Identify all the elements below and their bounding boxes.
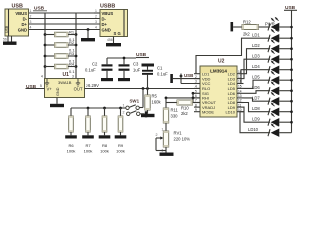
ground bar U1 [50, 104, 64, 107]
svg-text:5: 5 [195, 90, 197, 94]
svg-text:2: 2 [30, 15, 32, 19]
resistor R10 [166, 100, 200, 116]
svg-text:RV1: RV1 [174, 131, 183, 136]
wire SW1 right drop [140, 89, 144, 108]
junction RHI REFOUT tie [192, 97, 195, 103]
junction rail PWR [290, 26, 293, 29]
label LD2 [252, 43, 260, 48]
wire GND row4 [29, 29, 101, 31]
svg-text:USB: USB [184, 73, 193, 78]
svg-text:USB: USB [5, 25, 9, 33]
label LD6 [252, 85, 260, 90]
ground bar J1 shield [3, 42, 17, 45]
label LD10 [248, 127, 259, 132]
label LD5 [252, 75, 260, 80]
svg-text:11: 11 [238, 103, 242, 107]
label LD8 [252, 106, 260, 111]
junction rail LD2 [290, 47, 293, 50]
svg-text:2: 2 [156, 133, 158, 137]
IC U2 left pin names [202, 71, 217, 114]
IC U2 body [200, 66, 237, 117]
resistor R6 [67, 108, 76, 154]
connector J2 USBB label [100, 3, 115, 9]
svg-text:R1: R1 [69, 30, 75, 35]
junction U2 pin3 branch [180, 75, 183, 78]
resistor R4 [45, 62, 76, 74]
resistor R3 [45, 51, 76, 63]
svg-text:R2: R2 [69, 40, 75, 45]
svg-text:13: 13 [238, 94, 242, 98]
svg-text:U2: U2 [218, 58, 225, 64]
wire pin15 to LD5 [244, 80, 271, 88]
ground bar R9 [115, 135, 127, 138]
connector J1 pin VBUS [15, 11, 27, 16]
resistor R5 [145, 89, 162, 114]
connector J1 USB label [12, 3, 23, 9]
IC U1 name [58, 80, 72, 85]
svg-text:456: 456 [107, 38, 113, 42]
LED LD10 [268, 123, 292, 136]
junction rail LD3 [290, 58, 293, 61]
net flag USB at U2 [184, 73, 193, 78]
svg-text:9: 9 [195, 108, 197, 112]
junctions shunt right column [75, 33, 78, 68]
connector J2 pin numbers [95, 9, 97, 30]
connector J2 pin D- [102, 16, 107, 21]
svg-text:100k: 100k [67, 149, 76, 154]
wire pin10 to LD10 [240, 112, 270, 133]
LED LD9 [268, 113, 292, 127]
wire shunt left column [44, 13, 46, 79]
IC U1 pin OUT [74, 87, 83, 92]
LED LD2 [268, 39, 292, 53]
IC U1 body [45, 79, 85, 98]
svg-text:3: 3 [195, 80, 197, 84]
wire pin17 to LD3 [244, 59, 271, 78]
wire pin14 to LD6 [244, 91, 271, 94]
svg-text:1: 1 [95, 9, 97, 13]
resistor R9 [116, 108, 125, 154]
svg-text:V+: V+ [47, 87, 53, 92]
svg-text:56: 56 [3, 38, 7, 42]
label LD3 [252, 54, 260, 59]
svg-text:4: 4 [95, 26, 97, 30]
svg-text:LM3914: LM3914 [210, 69, 227, 74]
net flag USB row1 [33, 6, 47, 12]
svg-text:4: 4 [41, 75, 43, 79]
switch SW1 label [130, 99, 140, 104]
svg-text:2: 2 [95, 15, 97, 19]
IC U2 left pin numbers [195, 70, 197, 112]
wire node A vertical [165, 98, 167, 108]
label PWR [265, 22, 275, 27]
svg-text:1uF: 1uF [133, 68, 141, 73]
wire pin18 to LD2 [244, 49, 271, 74]
connector J1 pin D- [23, 16, 28, 21]
junction rail LD8 [290, 110, 293, 113]
connector J2 pin GND and shield [102, 27, 121, 36]
IC U2 right pin numbers [238, 70, 242, 112]
svg-text:2: 2 [195, 75, 197, 79]
svg-text:1: 1 [162, 128, 164, 132]
LED LD7 [268, 92, 292, 106]
wire U2 pin2 [173, 78, 200, 80]
junctions shunt left column [44, 33, 47, 68]
IC U1 rotated GND [56, 87, 60, 96]
resistor R2 [45, 40, 76, 52]
svg-text:GND: GND [56, 87, 60, 96]
wire pin1 over top [196, 38, 270, 73]
svg-text:LD9: LD9 [252, 117, 260, 122]
svg-text:160k: 160k [152, 100, 162, 105]
wire U1 ground pin [56, 98, 58, 104]
connector J2 shield pin numbers [107, 38, 113, 42]
svg-text:D-: D- [102, 16, 107, 21]
IC U2 header band [201, 67, 237, 74]
capacitor C1 [142, 64, 169, 89]
svg-text:D-: D- [23, 16, 28, 21]
svg-text:C3: C3 [133, 62, 139, 67]
wire D- row2 [29, 18, 101, 20]
capacitor C3 [119, 58, 141, 78]
wire pin11 to LD9 [244, 107, 271, 122]
wire shunt right column [75, 13, 77, 79]
svg-text:S G: S G [114, 31, 121, 36]
svg-text:R9: R9 [118, 143, 124, 148]
ground bar R5 [141, 114, 155, 117]
wire LED rail [291, 10, 293, 132]
label LD4 [252, 64, 260, 69]
svg-text:VBUS: VBUS [102, 11, 114, 16]
svg-text:GND: GND [102, 27, 111, 32]
net flag USB at U1 [26, 84, 45, 90]
IC U2 right pin stubs [237, 74, 244, 112]
junction rail LD5 [290, 79, 293, 82]
IC U1 label [63, 72, 70, 78]
svg-text:MODE: MODE [202, 109, 214, 114]
IC U1 pin numbers [40, 75, 88, 89]
LED PWR [268, 18, 292, 32]
svg-text:USB: USB [136, 52, 147, 58]
wire pin13 to LD7 [244, 98, 271, 101]
junction R7 bus [87, 107, 90, 110]
svg-text:8: 8 [195, 103, 197, 107]
junction R8 bus [103, 107, 106, 110]
svg-text:R3: R3 [69, 51, 75, 56]
resistor R8 [100, 108, 109, 154]
wire pin12 to LD8 [244, 103, 271, 112]
svg-text:OUT: OUT [74, 87, 83, 92]
svg-text:LD2: LD2 [252, 43, 260, 48]
ground bar J2 shield [106, 43, 121, 46]
LED LD6 [268, 81, 292, 95]
potentiometer RV1 [156, 128, 191, 153]
LED LD4 [268, 60, 292, 74]
svg-text:5: 5 [40, 84, 42, 88]
svg-text:LD8: LD8 [252, 106, 260, 111]
net flag USB at caps [136, 52, 147, 58]
resistor R12 [233, 19, 270, 36]
connector J1 shield pins [3, 36, 12, 42]
junction rail LD4 [290, 68, 293, 71]
ground bar row4 [81, 38, 95, 41]
wire D+ row3 [29, 23, 101, 25]
wire RHI [166, 97, 200, 99]
junction rail LD9 [290, 121, 293, 124]
junction C1 R5 [146, 87, 149, 90]
IC U2 name LM3914 [210, 69, 227, 74]
connector J2 pin D+ [102, 22, 108, 27]
svg-text:LD10: LD10 [248, 127, 259, 132]
svg-text:4: 4 [30, 26, 32, 30]
resistor R1 [45, 30, 76, 42]
svg-text:VBUS: VBUS [15, 11, 27, 16]
svg-text:3: 3 [72, 75, 74, 79]
svg-text:100k: 100k [84, 149, 93, 154]
IC U1 pin V+ [47, 87, 53, 92]
svg-text:SW1: SW1 [130, 99, 140, 104]
connector J2 USBB body [100, 10, 128, 37]
ground bar C2 [101, 78, 113, 81]
IC U2 label [218, 58, 225, 64]
ground bar R6 [65, 135, 77, 138]
svg-text:220 10%: 220 10% [174, 137, 191, 142]
junction SW1 drop [142, 87, 145, 90]
connector J1 rotated text [5, 25, 9, 33]
svg-text:2: 2 [123, 111, 125, 115]
svg-text:R6: R6 [68, 143, 74, 148]
svg-text:0.1: 0.1 [69, 69, 75, 74]
LED LD1 [268, 29, 292, 43]
svg-text:0.1uF: 0.1uF [85, 68, 96, 73]
junction GND row4 [87, 28, 90, 31]
wire GND drop [87, 30, 89, 39]
resistor R11 [163, 108, 178, 132]
ground bar R8 [99, 135, 111, 138]
svg-text:15: 15 [238, 85, 242, 89]
net flag USB right rail [284, 5, 297, 11]
connector J1 USB body [5, 9, 29, 36]
IC U2 right pin names [225, 71, 235, 114]
svg-text:330: 330 [171, 114, 179, 119]
svg-text:R7: R7 [85, 143, 91, 148]
switch SW1 [122, 104, 147, 118]
svg-text:R10: R10 [181, 106, 189, 111]
ground bar RV1 [160, 153, 174, 156]
capacitor C2 [85, 58, 113, 78]
ground bar U2 V- [170, 74, 173, 83]
svg-text:R4: R4 [69, 62, 75, 67]
wire pin16 to LD4 [241, 70, 270, 84]
connector J1 pin D+ [22, 22, 28, 27]
svg-text:LD6: LD6 [252, 85, 260, 90]
wire R6-R9 bus [71, 107, 126, 109]
svg-text:LD1: LD1 [252, 33, 260, 38]
wire U1 OUT to U2 [85, 88, 201, 90]
label LD1 [252, 33, 260, 38]
connector J1 pin numbers [30, 9, 32, 30]
svg-text:R11: R11 [171, 108, 179, 113]
junction RHI node [165, 97, 168, 100]
resistor R7 [84, 108, 93, 154]
svg-text:D+: D+ [102, 22, 108, 27]
LED LD3 [268, 50, 292, 64]
label LD7 [252, 96, 260, 101]
svg-text:1: 1 [123, 104, 125, 108]
ground bar C3 [118, 78, 130, 81]
svg-text:14: 14 [238, 90, 242, 94]
junction rail LD7 [290, 100, 293, 103]
wire U2 pin3 [181, 74, 200, 84]
net label 6.29V [88, 83, 99, 88]
svg-text:LD4: LD4 [252, 64, 260, 69]
wire VBUS row1 left [29, 12, 101, 14]
svg-text:3WA1B: 3WA1B [58, 80, 72, 85]
svg-text:C2: C2 [92, 62, 98, 67]
ground bar PWR [231, 22, 234, 31]
svg-text:12: 12 [238, 99, 242, 103]
svg-text:USBB: USBB [100, 3, 115, 9]
svg-text:2k2: 2k2 [243, 32, 250, 37]
svg-text:R8: R8 [102, 143, 108, 148]
junction rail LD1 [290, 37, 293, 40]
svg-text:100k: 100k [116, 149, 125, 154]
svg-text:C1: C1 [157, 66, 163, 71]
junction R9 bus [119, 107, 122, 110]
junction U2 SIG [192, 92, 195, 98]
svg-text:U1: U1 [63, 72, 70, 78]
connector J1 pin GND [18, 27, 27, 32]
svg-text:GND: GND [18, 27, 27, 32]
LED LD8 [268, 102, 292, 116]
svg-text:0.1uF: 0.1uF [157, 72, 168, 77]
ground bar R7 [82, 135, 94, 138]
junction rail LD6 [290, 89, 293, 92]
svg-text:4: 4 [195, 85, 197, 89]
IC U2 left pin stubs [194, 74, 200, 112]
svg-text:R12: R12 [243, 19, 251, 24]
svg-text:3: 3 [30, 20, 32, 24]
wire C2 C3 top [107, 57, 149, 60]
connector J2 pin VBUS [102, 11, 114, 16]
svg-text:LD3: LD3 [252, 54, 260, 59]
svg-text:2k2: 2k2 [181, 111, 188, 116]
wire J2 shield drop [113, 37, 115, 44]
svg-text:R5: R5 [152, 94, 158, 99]
IC U1 top pin marks [45, 79, 80, 87]
svg-text:3: 3 [95, 20, 97, 24]
svg-text:6.29V: 6.29V [88, 83, 99, 88]
label LD9 [252, 117, 260, 122]
junction C3 top [123, 57, 126, 60]
svg-text:100k: 100k [100, 149, 109, 154]
svg-text:LD10: LD10 [225, 109, 235, 114]
svg-text:D+: D+ [22, 22, 28, 27]
svg-text:LD7: LD7 [252, 96, 260, 101]
svg-text:LD5: LD5 [252, 75, 260, 80]
LED LD5 [268, 71, 292, 85]
svg-text:1: 1 [30, 9, 32, 13]
